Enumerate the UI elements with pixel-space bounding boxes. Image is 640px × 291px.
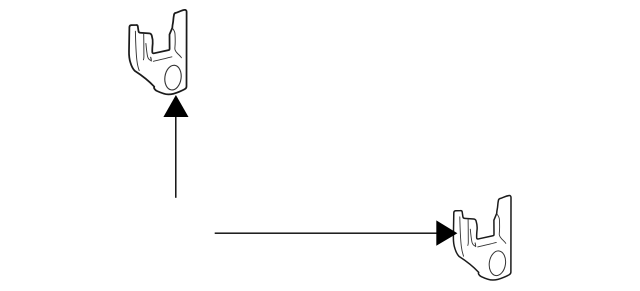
clamp bracket part (lower right) [453, 196, 511, 281]
horizontal arrow shaft [215, 232, 437, 234]
clamp bracket part (upper left) [129, 10, 187, 95]
horizontal arrow head [436, 220, 457, 245]
vertical arrow head [163, 95, 188, 117]
vertical arrow shaft [175, 117, 177, 198]
